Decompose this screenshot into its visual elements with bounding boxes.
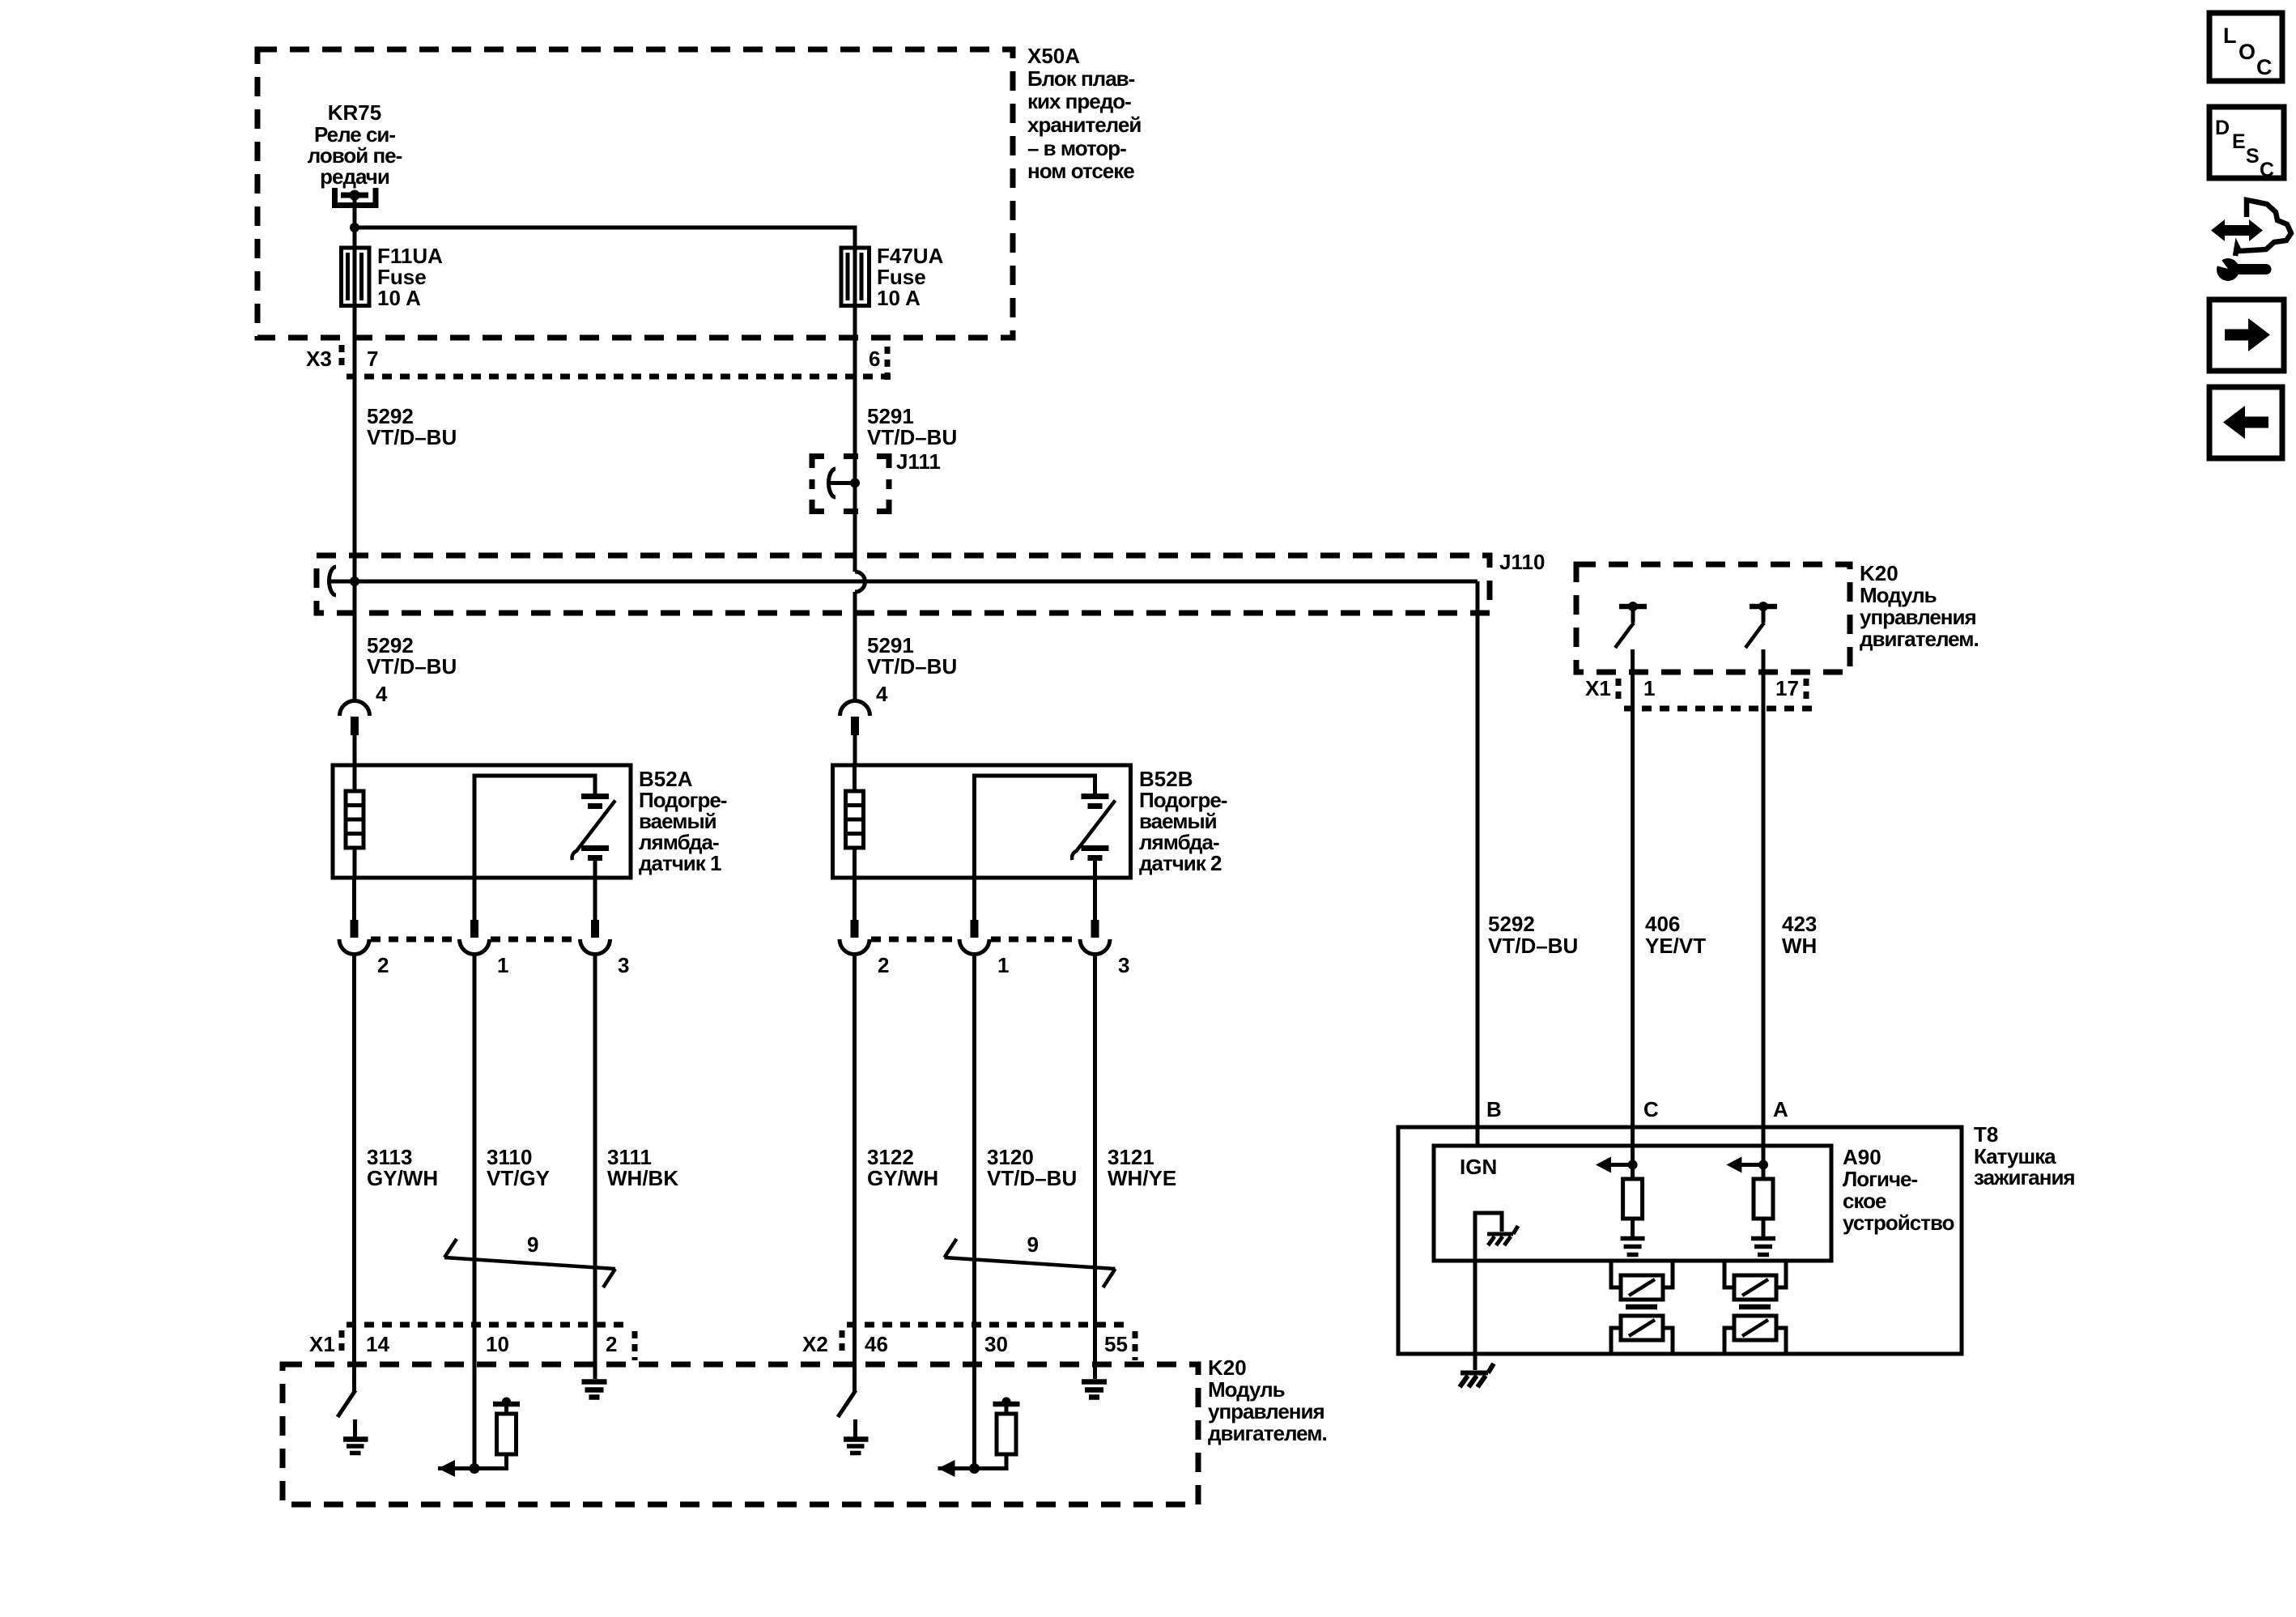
wire into F11UA: [353, 228, 357, 251]
B52A sense cell wiring: [474, 776, 595, 878]
wire label 3110 VT/GY: [487, 1145, 550, 1190]
svg-text:A90: A90: [1843, 1145, 1881, 1169]
svg-text:J111: J111: [896, 449, 941, 474]
svg-text:X2: X2: [802, 1332, 828, 1356]
connector X1 left tick: [339, 1330, 345, 1354]
label B52B: [1139, 767, 1227, 875]
svg-text:C: C: [1643, 1097, 1659, 1121]
coil transformer 2 secondary bracket: [1724, 1328, 1786, 1354]
svg-text:X50A: X50A: [1027, 44, 1080, 68]
engine control module K20 lower dashed box: [283, 1364, 1198, 1504]
splice J111 corner-dashed box: [812, 457, 889, 512]
label X50A: [1027, 44, 1141, 183]
coil transformer 2 secondary winding: [1734, 1316, 1776, 1340]
svg-text:L: L: [2223, 23, 2237, 48]
connector X1 right tick: [632, 1331, 638, 1360]
svg-text:7: 7: [367, 347, 378, 371]
svg-text:K20: K20: [1860, 561, 1898, 585]
K20 internal ground right: [1082, 1382, 1107, 1398]
fuse box X50A dashed outline: [257, 49, 1013, 338]
svg-text:3: 3: [618, 953, 629, 977]
coil transformer 2 core: [1739, 1304, 1771, 1310]
svg-text:VT/D–BU: VT/D–BU: [367, 654, 457, 679]
coil transformer 2 primary winding: [1734, 1275, 1776, 1300]
wire 5292 to ignition coil pin B: [1476, 581, 1480, 1146]
svg-text:T8: T8: [1974, 1122, 1998, 1147]
node J110 junction on wire 5292: [350, 577, 359, 586]
A90 internal ground A: [1751, 1239, 1775, 1255]
svg-text:WH: WH: [1782, 934, 1817, 958]
coil transformer 1 secondary winding: [1621, 1316, 1663, 1340]
wire label 5292 VT/D-BU coil: [1488, 912, 1578, 958]
svg-text:5292: 5292: [1488, 912, 1535, 936]
svg-text:B: B: [1486, 1097, 1502, 1121]
svg-text:WH/YE: WH/YE: [1108, 1166, 1176, 1190]
svg-text:VT/D–BU: VT/D–BU: [867, 654, 957, 679]
K20 internal ground left: [582, 1382, 607, 1398]
B52B inline connector pin 2: [840, 878, 870, 1391]
label A90: [1843, 1145, 1954, 1235]
K20 switch to ground left: [338, 1390, 368, 1453]
coil transformer 1 secondary bracket: [1611, 1328, 1673, 1354]
wire label 423 WH: [1782, 912, 1817, 958]
icon service outline: [2235, 200, 2291, 256]
svg-text:10: 10: [486, 1332, 509, 1356]
svg-text:– в мотор-: – в мотор-: [1027, 136, 1126, 160]
svg-text:1: 1: [497, 953, 508, 977]
engine control module K20 upper dashed box: [1576, 564, 1850, 672]
svg-text:2: 2: [377, 953, 389, 977]
B52B connector pin numbers: [878, 953, 1129, 977]
wire label 5291 VT/D-BU lower: [867, 633, 957, 679]
A90 resistor A: [1762, 1165, 1766, 1180]
coil transformer 1 primary bracket: [1611, 1262, 1673, 1287]
wire from relay to junction: [353, 195, 357, 228]
svg-text:IGN: IGN: [1460, 1155, 1497, 1179]
wire label 3113 GY/WH: [367, 1145, 438, 1190]
icon LOC box: [2209, 13, 2282, 81]
coil transformer 1 core: [1626, 1304, 1657, 1310]
connector X2 left tick: [840, 1330, 845, 1354]
icon service wrench: [2207, 251, 2266, 281]
label B52A: [639, 767, 727, 875]
svg-text:2: 2: [878, 953, 889, 977]
svg-text:VT/GY: VT/GY: [487, 1166, 550, 1190]
splice J111 symbol: [829, 469, 836, 497]
node junction at branch: [350, 223, 359, 232]
svg-text:17: 17: [1775, 676, 1799, 700]
logic device A90 box: [1434, 1146, 1831, 1261]
svg-text:9: 9: [527, 1232, 538, 1257]
fuse F47UA: [841, 248, 870, 306]
wire 406 to ignition coil pin C: [1631, 649, 1635, 1164]
svg-text:3: 3: [1118, 953, 1129, 977]
svg-text:10 A: 10 A: [877, 286, 921, 310]
svg-text:14: 14: [366, 1332, 389, 1356]
svg-text:K20: K20: [1208, 1355, 1247, 1380]
svg-text:55: 55: [1104, 1332, 1128, 1356]
wire label 3120 VT/D-BU: [987, 1145, 1077, 1190]
svg-text:устройство: устройство: [1843, 1211, 1954, 1235]
wire label 3111 WH/BK: [607, 1145, 678, 1190]
oxygen sensor B52B box: [833, 765, 1131, 878]
connector X3 left tick: [339, 345, 345, 368]
B52B sense cell symbol: [1082, 797, 1109, 858]
connector X3 dotted line: [347, 374, 891, 380]
label F47UA: [877, 244, 944, 310]
svg-text:C: C: [2256, 55, 2273, 79]
splice J110 hook symbol: [330, 567, 337, 595]
inline connector pin 4 B52A: [340, 701, 370, 716]
svg-text:ское: ское: [1843, 1189, 1886, 1213]
coil transformer 1 primary winding: [1621, 1275, 1663, 1300]
A90 internal logic ground wire: [1475, 1213, 1502, 1370]
svg-text:6: 6: [869, 347, 880, 371]
svg-text:4: 4: [876, 682, 888, 706]
svg-text:X1: X1: [309, 1332, 335, 1356]
B52A heater element: [353, 765, 357, 791]
connector X2 dotted line: [847, 1322, 1124, 1328]
icon arrow left box: [2209, 387, 2282, 458]
label F11UA: [377, 244, 443, 310]
inline connector pin 4 B52B: [840, 701, 870, 716]
splice box J110 dashed outline: [317, 555, 1490, 613]
svg-text:406: 406: [1645, 912, 1680, 936]
label K20 lower: [1208, 1355, 1327, 1445]
svg-text:датчик 2: датчик 2: [1139, 851, 1222, 875]
svg-text:KR75: KR75: [328, 100, 381, 125]
wire branch to F47UA: [355, 228, 855, 248]
K20 pull-up resistor left: [438, 1398, 520, 1478]
svg-text:ном отсеке: ном отсеке: [1027, 159, 1134, 183]
B52B heater element: [852, 765, 857, 791]
B52A inline connector pin 1: [460, 878, 490, 1469]
wire label 5292 VT/D-BU upper: [367, 404, 457, 449]
wire J110 bus to ignition coil feed: [355, 580, 1478, 584]
label T8: [1974, 1122, 2075, 1189]
svg-text:VT/D–BU: VT/D–BU: [1488, 934, 1578, 958]
wire label 3122 GY/WH: [867, 1145, 938, 1190]
shield drain symbol 9 left: [444, 1239, 615, 1287]
A90 resistor C: [1631, 1165, 1635, 1180]
A90 logic chassis ground: [1487, 1226, 1518, 1245]
K20 switch to ground right: [838, 1390, 869, 1453]
svg-text:D: D: [2215, 117, 2230, 139]
K20 pull-up resistor right: [938, 1398, 1020, 1478]
svg-text:C: C: [2260, 159, 2274, 181]
svg-text:двигателем.: двигателем.: [1208, 1421, 1327, 1445]
B52A connector dashed link: [371, 937, 579, 943]
wire 423 to ignition coil pin A: [1762, 649, 1766, 1164]
svg-text:1: 1: [1643, 676, 1655, 700]
wire 5291 hop over J110 bus: [855, 572, 865, 592]
T8 chassis ground: [1460, 1364, 1494, 1387]
wire label 5291 VT/D-BU upper: [867, 404, 957, 449]
ignition coil T8 box: [1398, 1127, 1962, 1354]
svg-text:X1: X1: [1585, 676, 1611, 700]
svg-text:GY/WH: GY/WH: [367, 1166, 438, 1190]
connector X1 upper dotted line: [1624, 706, 1812, 712]
A90 internal ground C: [1621, 1239, 1645, 1255]
svg-text:Модуль: Модуль: [1860, 583, 1937, 607]
K20 driver output 1: [1615, 602, 1647, 648]
svg-text:управления: управления: [1860, 605, 1976, 629]
svg-text:X3: X3: [306, 347, 332, 371]
svg-text:GY/WH: GY/WH: [867, 1166, 938, 1190]
svg-text:VT/D–BU: VT/D–BU: [867, 425, 957, 449]
svg-text:1: 1: [997, 953, 1009, 977]
svg-text:ких предо-: ких предо-: [1027, 89, 1131, 113]
svg-text:S: S: [2246, 145, 2260, 168]
svg-text:A: A: [1773, 1097, 1788, 1121]
wire label 5292 VT/D-BU lower: [367, 633, 457, 679]
svg-text:J110: J110: [1499, 550, 1545, 574]
B52A inline connector pin 3: [580, 878, 610, 1379]
svg-text:423: 423: [1782, 912, 1817, 936]
icon DESC box: [2209, 107, 2284, 181]
B52A inline connector pin 2: [339, 878, 369, 1391]
svg-text:4: 4: [376, 682, 388, 706]
B52A sense cell symbol: [581, 797, 609, 858]
connector X2 right tick: [1133, 1331, 1138, 1360]
svg-text:Логиче-: Логиче-: [1843, 1167, 1917, 1191]
A90 arrow A: [1741, 1163, 1763, 1167]
svg-text:46: 46: [865, 1332, 888, 1356]
B52B connector dashed link: [871, 937, 1078, 943]
B52B sense cell wiring: [975, 776, 1095, 878]
wire label 406 YE/VT: [1645, 912, 1706, 958]
svg-text:30: 30: [984, 1332, 1008, 1356]
icon service double arrow: [2211, 219, 2263, 241]
connector X1 upper left tick: [1616, 679, 1622, 702]
svg-text:хранителей: хранителей: [1027, 113, 1141, 137]
A90 arrow C: [1610, 1163, 1633, 1167]
svg-text:датчик 1: датчик 1: [639, 851, 721, 875]
svg-text:10 A: 10 A: [377, 286, 421, 310]
A90 branch A junction: [1758, 1160, 1768, 1170]
svg-text:Модуль: Модуль: [1208, 1377, 1285, 1402]
B52B inline connector pin 3: [1080, 878, 1110, 1379]
label K20 upper: [1860, 561, 1979, 651]
svg-text:двигателем.: двигателем.: [1860, 627, 1979, 651]
svg-text:O: O: [2239, 40, 2256, 64]
svg-text:2: 2: [606, 1332, 617, 1356]
svg-text:редачи: редачи: [320, 164, 389, 189]
svg-text:зажигания: зажигания: [1974, 1165, 2075, 1189]
svg-text:VT/D–BU: VT/D–BU: [987, 1166, 1077, 1190]
icon arrow right box: [2209, 300, 2284, 371]
coil transformer 2 primary bracket: [1724, 1262, 1786, 1287]
B52B inline connector pin 1: [959, 878, 989, 1469]
svg-text:управления: управления: [1208, 1399, 1324, 1423]
svg-text:VT/D–BU: VT/D–BU: [367, 425, 457, 449]
label KR75: [308, 100, 402, 189]
A90 branch C junction: [1628, 1160, 1638, 1170]
wire 5291 from fuse F47UA down to J110 hop: [853, 305, 857, 572]
svg-text:YE/VT: YE/VT: [1645, 934, 1706, 958]
relay KR75 contact symbol: [335, 188, 376, 206]
wire label 3121 WH/YE: [1108, 1145, 1176, 1190]
svg-text:E: E: [2232, 130, 2246, 153]
K20 driver output 17: [1745, 602, 1777, 648]
B52A connector pin numbers: [377, 953, 629, 977]
svg-text:WH/BK: WH/BK: [607, 1166, 678, 1190]
connector X1 dotted line: [347, 1322, 623, 1328]
oxygen sensor B52A box: [333, 765, 631, 878]
svg-text:9: 9: [1027, 1232, 1039, 1257]
fuse F11UA: [342, 248, 370, 306]
connector X1 upper right tick: [1804, 679, 1809, 702]
svg-text:Блок плав-: Блок плав-: [1027, 66, 1135, 91]
shield drain symbol 9 right: [945, 1239, 1116, 1287]
connector X3 right tick: [885, 347, 891, 382]
wire 5292 from fuse F11UA down to sensor connector: [353, 305, 357, 701]
